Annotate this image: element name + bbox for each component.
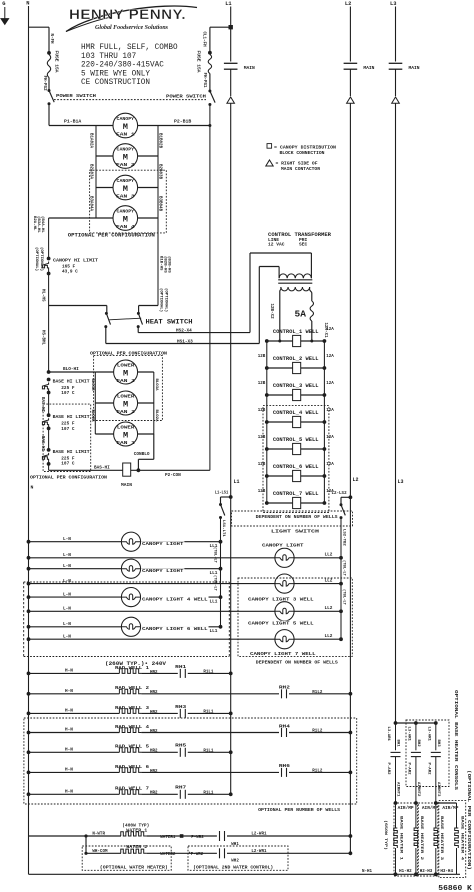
svg-text:HR2: HR2 bbox=[150, 750, 158, 754]
svg-text:HEAT SWITCH: HEAT SWITCH bbox=[146, 318, 193, 325]
svg-text:FAN 3: FAN 3 bbox=[116, 195, 135, 200]
svg-text:Global Foodservice Solutions: Global Foodservice Solutions bbox=[95, 24, 168, 31]
svg-text:POWER SWITCH: POWER SWITCH bbox=[166, 94, 206, 100]
svg-text:POWER SWITCH: POWER SWITCH bbox=[56, 93, 96, 99]
svg-text:HS-BHL: HS-BHL bbox=[40, 330, 44, 346]
svg-text:OPTIONAL PER CONFIGURATION: OPTIONAL PER CONFIGURATION bbox=[30, 475, 107, 481]
svg-text:(OPTIONAL WATER HEATER): (OPTIONAL WATER HEATER) bbox=[100, 865, 168, 871]
svg-text:BH1: BH1 bbox=[396, 740, 400, 748]
svg-text:L1: L1 bbox=[225, 1, 231, 7]
svg-text:FUSE 15A: FUSE 15A bbox=[53, 51, 59, 73]
svg-text:12B: 12B bbox=[258, 490, 266, 494]
svg-text:L2-WR1: L2-WR1 bbox=[251, 850, 267, 854]
svg-text:BASE HEATER 1: BASE HEATER 1 bbox=[399, 816, 403, 861]
svg-text:(B3B-HS: (B3B-HS bbox=[167, 256, 172, 273]
svg-text:12B: 12B bbox=[258, 355, 266, 359]
svg-text:R1L1: R1L1 bbox=[203, 750, 214, 754]
svg-text:OPTIONAL BASE HEATER CONSOLS: OPTIONAL BASE HEATER CONSOLS bbox=[453, 690, 457, 791]
svg-text:FH-PS1: FH-PS1 bbox=[202, 73, 206, 89]
svg-text:HENNY PENNY.: HENNY PENNY. bbox=[69, 7, 186, 22]
svg-text:L3-AR1: L3-AR1 bbox=[386, 727, 390, 742]
svg-text:BAS-HI: BAS-HI bbox=[94, 465, 110, 470]
svg-text:N: N bbox=[31, 485, 34, 491]
svg-text:R1L2: R1L2 bbox=[312, 770, 323, 774]
svg-text:L3: L3 bbox=[398, 479, 404, 485]
svg-text:LS2-TB2: LS2-TB2 bbox=[341, 529, 345, 546]
svg-text:BH2: BH2 bbox=[416, 740, 420, 748]
svg-text:OPTIONAL PER CONFIGURATION: OPTIONAL PER CONFIGURATION bbox=[68, 233, 155, 239]
svg-text:HS2-X4: HS2-X4 bbox=[176, 328, 192, 333]
svg-text:B1B02B: B1B02B bbox=[158, 133, 162, 149]
svg-text:OPTIONAL PER CONFIGURATION: OPTIONAL PER CONFIGURATION bbox=[90, 350, 167, 356]
svg-text:BASE HI LIMIT: BASE HI LIMIT bbox=[53, 414, 90, 420]
svg-text:MAIN: MAIN bbox=[244, 65, 255, 71]
svg-text:R1L1: R1L1 bbox=[203, 671, 214, 675]
svg-text:5 WIRE WYE ONLY: 5 WIRE WYE ONLY bbox=[81, 69, 150, 78]
svg-text:CANOPY LIGHT: CANOPY LIGHT bbox=[262, 543, 304, 549]
svg-text:HR2: HR2 bbox=[150, 792, 158, 796]
svg-text:HR2: HR2 bbox=[150, 671, 158, 675]
svg-text:RH3: RH3 bbox=[175, 704, 186, 710]
svg-text:56860 K: 56860 K bbox=[438, 885, 472, 892]
svg-text:LL1: LL1 bbox=[210, 629, 218, 634]
svg-text:BASE HEATER 4: BASE HEATER 4 bbox=[460, 816, 464, 861]
svg-text:WH2: WH2 bbox=[231, 860, 239, 864]
svg-text:M: M bbox=[123, 430, 128, 440]
svg-text:12A: 12A bbox=[326, 409, 334, 413]
svg-text:B1B-HS: B1B-HS bbox=[159, 256, 163, 271]
svg-text:M: M bbox=[123, 184, 128, 194]
svg-text:HR2: HR2 bbox=[150, 770, 158, 774]
svg-text:CANOPY LIGHT: CANOPY LIGHT bbox=[142, 541, 184, 547]
svg-text:(OPTIONAL}: (OPTIONAL} bbox=[34, 247, 39, 272]
svg-text:FAN 1: FAN 1 bbox=[116, 441, 135, 446]
svg-text:N-H1: N-H1 bbox=[362, 870, 373, 874]
svg-text:RAD WELL 4: RAD WELL 4 bbox=[115, 724, 149, 730]
svg-text:H-N: H-N bbox=[65, 747, 73, 752]
svg-text:LL2: LL2 bbox=[325, 634, 333, 639]
svg-text:P2-CON: P2-CON bbox=[165, 473, 181, 478]
svg-text:BH3: BH3 bbox=[436, 740, 440, 748]
svg-text:(650W TYP): (650W TYP) bbox=[383, 820, 388, 850]
svg-text:LS1-LT1: LS1-LT1 bbox=[221, 520, 225, 537]
svg-text:P-WR2: P-WR2 bbox=[191, 836, 204, 840]
svg-text:SEC: SEC bbox=[299, 242, 308, 248]
svg-text:FAN 2: FAN 2 bbox=[116, 410, 135, 415]
svg-text:N: N bbox=[26, 1, 29, 7]
svg-text:12 VAC: 12 VAC bbox=[268, 242, 285, 248]
svg-text:AIR/MP: AIR/MP bbox=[442, 806, 459, 811]
svg-text:12B: 12B bbox=[258, 382, 266, 386]
svg-text:= CANOPY DISTRIBUTION: = CANOPY DISTRIBUTION bbox=[274, 145, 336, 150]
svg-text:LL2: LL2 bbox=[325, 578, 333, 583]
svg-text:M: M bbox=[123, 122, 128, 132]
svg-text:FH-PS2: FH-PS2 bbox=[42, 76, 46, 92]
svg-text:G: G bbox=[2, 1, 5, 7]
svg-text:CANOPY LIGHT: CANOPY LIGHT bbox=[142, 568, 184, 574]
svg-text:12B: 12B bbox=[258, 463, 266, 467]
svg-text:L2-LS2: L2-LS2 bbox=[332, 492, 348, 496]
svg-text:H-N: H-N bbox=[65, 668, 73, 673]
svg-text:*P-WR2: *P-WR2 bbox=[188, 852, 204, 857]
svg-text:CL1-FH: CL1-FH bbox=[202, 32, 206, 48]
svg-text:DEPENDENT ON NUMBER OF WELLS: DEPENDENT ON NUMBER OF WELLS bbox=[256, 660, 338, 666]
svg-text:H-N: H-N bbox=[65, 708, 73, 713]
svg-text:R1L2: R1L2 bbox=[312, 730, 323, 734]
svg-text:MAIN: MAIN bbox=[409, 65, 420, 71]
svg-text:HR2: HR2 bbox=[150, 711, 158, 715]
svg-text:(TBL-LT: (TBL-LT bbox=[341, 560, 346, 577]
svg-text:43,9 C: 43,9 C bbox=[62, 270, 78, 275]
svg-text:12B: 12B bbox=[258, 409, 266, 413]
svg-text:AIR/MP: AIR/MP bbox=[422, 806, 439, 811]
svg-text:RAD WELL 6: RAD WELL 6 bbox=[115, 764, 149, 770]
svg-text:107 C: 107 C bbox=[61, 427, 75, 432]
svg-text:P1-B1A: P1-B1A bbox=[64, 119, 81, 125]
svg-text:LIGHT SWITCH: LIGHT SWITCH bbox=[271, 529, 319, 535]
svg-text:220-240/380-415VAC: 220-240/380-415VAC bbox=[81, 60, 164, 70]
svg-text:H-N: H-N bbox=[65, 789, 73, 794]
svg-text:CANOPY LIGHT 4 WELL: CANOPY LIGHT 4 WELL bbox=[142, 596, 208, 602]
svg-text:AIR/MP: AIR/MP bbox=[398, 806, 415, 811]
svg-text:CANOPY LIGHT 6 WELL: CANOPY LIGHT 6 WELL bbox=[142, 626, 208, 632]
svg-text:CONTROL_5 WELL: CONTROL_5 WELL bbox=[273, 437, 319, 443]
svg-text:M: M bbox=[123, 214, 128, 224]
svg-text:WATER1: WATER1 bbox=[160, 836, 176, 840]
svg-text:M: M bbox=[123, 152, 128, 162]
svg-text:RH6: RH6 bbox=[279, 763, 290, 769]
svg-text:B2A-HL: B2A-HL bbox=[32, 216, 36, 231]
svg-text:RAD WELL 2: RAD WELL 2 bbox=[115, 685, 149, 691]
svg-text:P-AR2: P-AR2 bbox=[407, 763, 411, 776]
svg-text:B3B04B: B3B04B bbox=[158, 196, 162, 212]
svg-text:(TBL-LT: (TBL-LT bbox=[213, 575, 218, 592]
svg-text:BLO3A: BLO3A bbox=[154, 379, 158, 392]
svg-text:P-AR2: P-AR2 bbox=[426, 763, 430, 776]
svg-text:L3-AR1: L3-AR1 bbox=[407, 727, 411, 742]
svg-text:P2-B1B: P2-B1B bbox=[174, 119, 191, 125]
svg-text:CONTROL_7 WELL: CONTROL_7 WELL bbox=[273, 491, 319, 497]
svg-text:AIRHT1: AIRHT1 bbox=[396, 782, 400, 797]
svg-text:(B4A-HL: (B4A-HL bbox=[40, 216, 45, 233]
svg-text:WATER 1: WATER 1 bbox=[126, 827, 147, 833]
svg-text:CONTROL_2 WELL: CONTROL_2 WELL bbox=[273, 356, 319, 362]
svg-text:H1-H2: H1-H2 bbox=[399, 870, 412, 874]
svg-text:FAN 2: FAN 2 bbox=[116, 163, 135, 168]
svg-text:CONTROL_6 WELL: CONTROL_6 WELL bbox=[273, 464, 319, 470]
svg-text:HR2: HR2 bbox=[150, 691, 158, 695]
svg-text:HMR FULL, SELF, COMBO: HMR FULL, SELF, COMBO bbox=[81, 43, 178, 52]
svg-text:FAN 4: FAN 4 bbox=[116, 225, 135, 230]
svg-text:LL2: LL2 bbox=[325, 606, 333, 611]
svg-text:BASE HI LIMIT: BASE HI LIMIT bbox=[53, 378, 90, 384]
svg-text:OPTIONAL PER NUMBER OF WELLS: OPTIONAL PER NUMBER OF WELLS bbox=[258, 807, 340, 813]
svg-text:L3-AR1: L3-AR1 bbox=[426, 727, 430, 742]
svg-text:N-FH: N-FH bbox=[49, 34, 53, 45]
svg-text:12B: 12B bbox=[258, 436, 266, 440]
svg-text:MAIN: MAIN bbox=[121, 482, 132, 488]
svg-text:(TBL-LT: (TBL-LT bbox=[341, 589, 346, 606]
svg-text:R1L2: R1L2 bbox=[312, 691, 323, 695]
svg-text:BASE HEATER 2: BASE HEATER 2 bbox=[419, 816, 423, 861]
svg-text:L3: L3 bbox=[390, 1, 396, 7]
svg-text:MAIN CONTACTOR: MAIN CONTACTOR bbox=[281, 167, 320, 172]
svg-text:RAD WELL 7: RAD WELL 7 bbox=[115, 786, 149, 792]
svg-text:(OPTIONAL}: (OPTIONAL} bbox=[164, 288, 169, 313]
svg-text:LL2: LL2 bbox=[325, 553, 333, 558]
svg-text:CANOPY HI LIMIT: CANOPY HI LIMIT bbox=[53, 258, 98, 264]
svg-text:L2: L2 bbox=[353, 477, 359, 483]
svg-text:12A: 12A bbox=[326, 463, 334, 467]
svg-text:107 C: 107 C bbox=[61, 391, 75, 396]
svg-text:RH1: RH1 bbox=[175, 664, 186, 670]
svg-text:107 C: 107 C bbox=[61, 462, 75, 467]
svg-text:B2B03B: B2B03B bbox=[158, 164, 162, 180]
svg-text:RH2: RH2 bbox=[279, 685, 290, 691]
svg-text:FUSE 15A: FUSE 15A bbox=[196, 51, 202, 73]
svg-text:B1A02A: B1A02A bbox=[89, 133, 93, 149]
svg-text:12B-X2: 12B-X2 bbox=[269, 304, 273, 320]
svg-text:LL1: LL1 bbox=[210, 600, 218, 605]
svg-text:P-AR2: P-AR2 bbox=[386, 763, 390, 776]
svg-text:WATER2: WATER2 bbox=[160, 853, 176, 857]
svg-text:CANOPY LIGHT 7 WELL: CANOPY LIGHT 7 WELL bbox=[250, 651, 316, 657]
svg-text:M: M bbox=[123, 399, 128, 409]
svg-text:H-N: H-N bbox=[65, 767, 73, 772]
svg-text:12A: 12A bbox=[326, 355, 334, 359]
svg-text:103 THRU 107: 103 THRU 107 bbox=[81, 52, 136, 61]
svg-text:(OPTIONAL}: (OPTIONAL} bbox=[159, 288, 164, 313]
svg-text:BASE HI LIMIT: BASE HI LIMIT bbox=[53, 449, 90, 455]
svg-text:CE CONSTRUCTION: CE CONSTRUCTION bbox=[81, 78, 150, 87]
svg-text:L1: L1 bbox=[234, 479, 240, 485]
svg-text:DEPENDENT ON NUMBER OF WELLS: DEPENDENT ON NUMBER OF WELLS bbox=[256, 514, 338, 520]
svg-text:MAIN: MAIN bbox=[363, 65, 374, 71]
svg-text:CONBLO: CONBLO bbox=[134, 452, 150, 457]
svg-text:WH-COM: WH-COM bbox=[92, 850, 108, 854]
svg-text:AIRHT3: AIRHT3 bbox=[436, 782, 440, 797]
svg-text:12A: 12A bbox=[326, 328, 334, 332]
svg-text:HL-HS: HL-HS bbox=[40, 289, 44, 302]
svg-text:= RIGHT SIDE OF: = RIGHT SIDE OF bbox=[276, 162, 318, 167]
svg-text:CONTROL_3 WELL: CONTROL_3 WELL bbox=[273, 383, 319, 389]
svg-text:FAN 3: FAN 3 bbox=[116, 379, 135, 384]
svg-text:CONTROL_1 WELL: CONTROL_1 WELL bbox=[273, 329, 319, 335]
svg-text:H2-H3: H2-H3 bbox=[420, 870, 433, 874]
svg-text:12A: 12A bbox=[326, 436, 334, 440]
svg-text:(OPTIONAL PER CONFIGURATION): (OPTIONAL PER CONFIGURATION) bbox=[466, 770, 471, 870]
svg-text:L2-WR1: L2-WR1 bbox=[251, 833, 267, 837]
svg-text:B2A03A: B2A03A bbox=[89, 164, 93, 180]
svg-text:BASE HEATER 3: BASE HEATER 3 bbox=[439, 816, 443, 861]
svg-text:M: M bbox=[123, 368, 128, 378]
svg-text:CONTROL_4 WELL: CONTROL_4 WELL bbox=[273, 410, 319, 416]
svg-text:12A: 12A bbox=[326, 382, 334, 386]
svg-text:WH1: WH1 bbox=[231, 843, 239, 847]
svg-text:RAD WELL 3: RAD WELL 3 bbox=[115, 705, 149, 711]
svg-text:(TBL-LT: (TBL-LT bbox=[213, 547, 218, 564]
svg-text:CANOPY LIGHT 3 WELL: CANOPY LIGHT 3 WELL bbox=[248, 597, 314, 603]
svg-text:BAS-HI: BAS-HI bbox=[40, 397, 44, 413]
svg-text:H-N: H-N bbox=[65, 728, 73, 733]
svg-text:N-WTR: N-WTR bbox=[92, 833, 105, 837]
svg-text:RAD WELL 5: RAD WELL 5 bbox=[115, 744, 149, 750]
svg-text:RAD WELL 1: RAD WELL 1 bbox=[115, 665, 149, 671]
svg-text:R1L1: R1L1 bbox=[203, 711, 214, 715]
svg-text:BLOCK CONNECTION: BLOCK CONNECTION bbox=[280, 151, 325, 156]
svg-text:CANOPY LIGHT 5 WELL: CANOPY LIGHT 5 WELL bbox=[248, 621, 314, 627]
svg-text:HR2: HR2 bbox=[150, 730, 158, 734]
svg-text:L1-LS1: L1-LS1 bbox=[215, 492, 229, 496]
svg-text:H-N: H-N bbox=[65, 689, 73, 694]
svg-text:R1L1: R1L1 bbox=[203, 792, 214, 796]
svg-text:RH4: RH4 bbox=[279, 723, 290, 729]
svg-text:FAN 1: FAN 1 bbox=[116, 133, 135, 138]
svg-text:H3-H4: H3-H4 bbox=[440, 870, 453, 874]
svg-text:5A: 5A bbox=[295, 309, 307, 320]
svg-text:AIRHT2: AIRHT2 bbox=[416, 782, 420, 797]
svg-text:HS1-X3: HS1-X3 bbox=[177, 339, 193, 344]
svg-text:L2: L2 bbox=[345, 1, 351, 7]
svg-text:BLO-HI: BLO-HI bbox=[63, 367, 79, 372]
svg-text:(OPTIONAL 2ND WATER CONTROL): (OPTIONAL 2ND WATER CONTROL) bbox=[193, 865, 273, 871]
